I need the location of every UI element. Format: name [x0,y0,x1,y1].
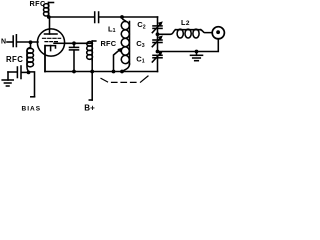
wire plate to blocking cap [49,16,94,18]
wire common bus [45,71,158,73]
node plate junction [47,15,51,19]
node L1 top junction [120,15,124,19]
tap arrow on L1 [114,50,121,72]
node bypass cap bus [72,70,76,74]
wire input lead [7,41,13,43]
jack output connector [212,27,224,39]
node tap bus [112,70,116,74]
node C3-C1 junction [156,50,160,54]
ground output side [196,52,198,56]
node grid junction [29,40,33,44]
ground grid return [7,72,9,80]
tube plate [49,17,51,34]
svg-text:BIAS: BIAS [22,106,42,113]
node C2-C3 junction [156,32,160,36]
svg-text:RFC: RFC [6,55,23,64]
svg-text:C1: C1 [136,54,144,64]
wire output return [158,39,218,52]
wire cathode drop [44,46,46,72]
tube filament [45,46,56,72]
node C3-C1 to return [195,50,199,54]
wire B+ lead [91,61,93,101]
inductor RFC plate choke [49,2,54,4]
svg-text:B+: B+ [84,104,95,113]
wire grid [17,41,38,43]
svg-text:C3: C3 [136,39,144,49]
wire screen [64,42,92,44]
capacitor C1 variable [153,54,162,56]
inductor RFC grid choke [27,47,31,71]
tube V1 envelope [37,29,64,56]
capacitor C2 variable [157,17,159,26]
inductor L1 tank coil [122,18,126,22]
tube control grid (dashed) [43,37,61,39]
wire to bypass capacitor [22,71,29,73]
terminal bias tick [31,96,35,98]
svg-text:N: N [1,39,6,46]
wire C2-C3 tap to L2 [158,30,176,35]
capacitor screen bypass [73,43,75,47]
terminal B+ tick [89,99,92,101]
svg-text:RFC: RFC [101,39,117,48]
node bias junction [27,71,31,75]
inductor L2 [176,29,201,31]
node L1 bottom bus [120,70,124,74]
tube screen grid (dashed) [45,41,57,43]
node B+ bus [90,70,94,74]
node screen cap junction [72,41,76,45]
tube screen lead inside [54,42,64,44]
dashed linkage [101,76,148,82]
wire tank top [99,16,157,18]
wire to ground [8,71,17,73]
capacitor blocking [94,12,96,23]
capacitor C3 variable [157,34,159,39]
capacitor grid bypass [20,66,22,79]
wire bias lead [29,72,35,97]
inductor RFC screen choke [92,40,96,42]
svg-text:C2: C2 [137,20,145,30]
wire grid RFC drop [30,42,32,47]
capacitor input coupling [12,36,14,47]
svg-text:L1: L1 [108,24,116,34]
svg-text:L2: L2 [181,18,190,27]
